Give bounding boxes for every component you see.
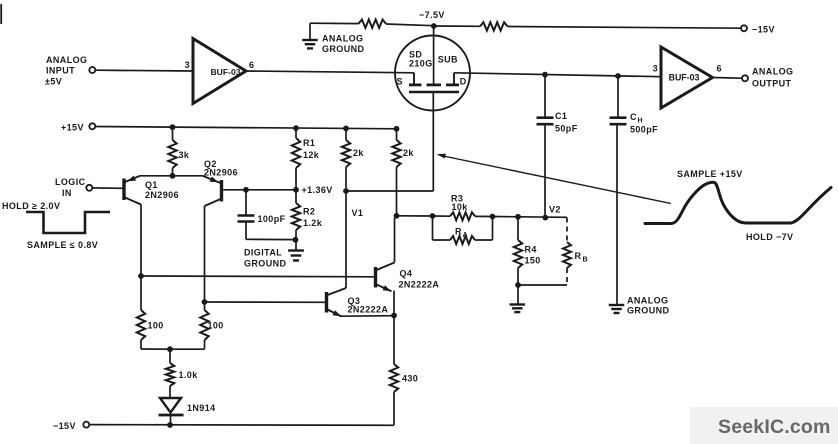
svg-text:210G: 210G <box>409 59 433 69</box>
wire 100pF to R2 bottom <box>246 238 296 240</box>
wire -15V rail <box>89 422 394 428</box>
wire SUB lead <box>433 26 435 84</box>
arrow annotation to gate <box>437 154 672 204</box>
waveform sample-hold <box>645 169 831 242</box>
svg-text:150: 150 <box>525 256 541 266</box>
svg-text:R4: R4 <box>525 245 537 255</box>
wire to Q3 base <box>202 299 325 305</box>
resistor RB <box>518 218 588 286</box>
svg-text:ANALOG: ANALOG <box>46 55 87 65</box>
wire Q2 collector down <box>204 206 206 302</box>
svg-text:500pF: 500pF <box>630 125 658 135</box>
transistor Q4 2N2222A <box>376 263 440 316</box>
op-amp U1 BUF-03 <box>185 39 255 104</box>
svg-text:B: B <box>583 255 589 264</box>
svg-text:C1: C1 <box>555 111 567 121</box>
svg-text:Q1: Q1 <box>145 180 158 190</box>
svg-text:3: 3 <box>185 60 190 70</box>
wire top rail left <box>310 22 359 24</box>
svg-text:Q4: Q4 <box>400 269 413 279</box>
svg-text:2N2906: 2N2906 <box>204 168 238 178</box>
resistor 2k (V1 branch) <box>342 128 365 191</box>
svg-text:2k: 2k <box>403 148 414 158</box>
svg-text:−7.5V: −7.5V <box>419 10 445 20</box>
wire U1 output to FET source <box>246 71 414 73</box>
svg-text:SeekIC.com: SeekIC.com <box>718 416 831 438</box>
svg-text:HOLD −7V: HOLD −7V <box>746 232 793 242</box>
svg-text:R1: R1 <box>303 138 315 148</box>
svg-text:SUB: SUB <box>438 55 458 65</box>
svg-text:100: 100 <box>208 321 224 331</box>
scan mark (edge) <box>0 4 2 24</box>
svg-text:ANALOG: ANALOG <box>752 67 793 77</box>
svg-text:−15V: −15V <box>53 421 76 431</box>
svg-text:1N914: 1N914 <box>187 403 216 413</box>
node V2 <box>549 205 561 215</box>
svg-text:R2: R2 <box>303 207 315 217</box>
resistor 430 <box>390 316 418 426</box>
capacitor CH 500pF <box>610 73 659 304</box>
svg-text:±5V: ±5V <box>45 77 62 87</box>
svg-text:A: A <box>463 230 469 239</box>
svg-text:100: 100 <box>148 321 164 331</box>
wire Q1 collector down <box>140 205 142 277</box>
svg-text:2N2906: 2N2906 <box>145 190 179 200</box>
resistor R2 1.2k <box>292 190 323 243</box>
wire to Q4 base <box>138 273 374 279</box>
svg-text:INPUT: INPUT <box>46 66 75 76</box>
svg-text:ANALOG: ANALOG <box>627 296 668 306</box>
svg-text:S: S <box>397 77 403 87</box>
svg-text:HOLD ≥ 2.0V: HOLD ≥ 2.0V <box>2 201 60 211</box>
wire to -7.5V node <box>386 24 434 26</box>
terminal -15V (top) <box>741 25 775 35</box>
wire to -15V terminal <box>508 27 741 29</box>
wire FET gate to node <box>346 92 433 191</box>
svg-text:V2: V2 <box>549 205 561 215</box>
terminal LOGIC IN <box>55 177 92 198</box>
wire Q4 collector <box>394 218 396 263</box>
svg-text:3k: 3k <box>179 150 190 160</box>
transistor Q3 2N2222A <box>327 288 395 317</box>
svg-text:6: 6 <box>249 60 254 70</box>
terminal ANALOG INPUT ±5V <box>45 55 95 87</box>
wire V1 node <box>343 188 363 288</box>
wire U2 output <box>713 77 742 80</box>
wire input to U1 <box>95 69 193 72</box>
diode D1 1N914 <box>159 398 216 425</box>
wire LOGIC IN to Q1 base <box>92 187 122 189</box>
svg-text:SAMPLE +15V: SAMPLE +15V <box>677 169 743 179</box>
resistor R3 10k <box>430 194 496 221</box>
svg-text:+15V: +15V <box>61 123 84 133</box>
resistor R1 12k <box>292 128 320 189</box>
svg-text:ANALOG: ANALOG <box>322 34 363 44</box>
capacitor 100pF <box>238 190 286 240</box>
svg-text:−15V: −15V <box>752 25 775 35</box>
svg-text:R: R <box>575 251 582 261</box>
svg-text:GROUND: GROUND <box>627 306 669 316</box>
svg-text:2N2222A: 2N2222A <box>348 305 389 315</box>
node -7.5V <box>419 10 445 29</box>
svg-text:2N2222A: 2N2222A <box>399 280 440 290</box>
svg-text:430: 430 <box>402 374 418 384</box>
svg-text:12k: 12k <box>303 150 320 160</box>
wire -7.5V to resistor <box>434 25 480 27</box>
watermark SeekIC.com <box>690 407 838 444</box>
svg-text:6: 6 <box>717 64 722 74</box>
svg-text:SAMPLE ≤ 0.8V: SAMPLE ≤ 0.8V <box>27 240 98 250</box>
resistor 3k <box>168 127 190 176</box>
ground ANALOG GROUND (under CH) <box>609 296 670 316</box>
wire emitter rail <box>140 173 203 179</box>
svg-text:GROUND: GROUND <box>244 259 286 269</box>
svg-text:LOGIC: LOGIC <box>55 177 86 187</box>
svg-text:H: H <box>638 118 643 125</box>
resistor top-left <box>359 20 387 28</box>
svg-text:1.0k: 1.0k <box>179 370 199 380</box>
svg-text:IN: IN <box>62 188 72 198</box>
svg-text:10k: 10k <box>452 202 469 212</box>
resistor 2k (Q4 branch) <box>392 129 414 216</box>
resistor RA <box>433 216 493 244</box>
transistor Q1 2N2906 <box>124 176 179 205</box>
wire Q2 base to +1.36V <box>223 187 299 193</box>
capacitor C1 50pF <box>537 72 578 218</box>
terminal ANALOG OUTPUT <box>742 67 793 89</box>
svg-text:C: C <box>630 112 637 122</box>
svg-text:GROUND: GROUND <box>322 44 364 54</box>
node emitters join <box>391 313 397 319</box>
ground ANALOG GROUND (top left) <box>302 23 364 54</box>
transistor Q5 SD 210G MOSFET <box>395 36 470 111</box>
terminal +15V <box>61 123 95 133</box>
svg-text:+1.36V: +1.36V <box>302 185 333 195</box>
svg-text:OUTPUT: OUTPUT <box>752 79 792 89</box>
svg-text:BUF-03: BUF-03 <box>669 73 700 83</box>
wire +15V rail <box>95 124 399 131</box>
resistor R4 150 <box>514 217 541 288</box>
ground under R4 <box>510 285 526 312</box>
svg-text:D: D <box>460 76 467 86</box>
ground DIGITAL GROUND <box>244 240 304 269</box>
svg-text:3: 3 <box>653 64 658 74</box>
svg-text:2k: 2k <box>353 148 364 158</box>
svg-text:V1: V1 <box>352 208 364 218</box>
wire 2k to R3 row <box>394 213 433 219</box>
svg-text:100pF: 100pF <box>258 214 286 224</box>
resistor 1.0k <box>166 346 198 398</box>
svg-text:BUF-03: BUF-03 <box>210 67 240 77</box>
node +1.36V <box>302 185 333 195</box>
svg-text:R: R <box>455 227 462 237</box>
svg-text:1.2k: 1.2k <box>303 218 323 228</box>
wire R3 to V2 <box>493 214 568 221</box>
svg-text:50pF: 50pF <box>555 124 578 134</box>
wire FET drain to U2 <box>454 73 661 77</box>
op-amp U2 BUF-03 <box>653 47 722 108</box>
logic waveform <box>2 201 110 250</box>
transistor Q2 2N2906 <box>203 159 238 206</box>
resistor top-right <box>480 22 508 30</box>
resistor 100 (right) <box>170 302 224 349</box>
resistor 100 (left) <box>137 276 170 349</box>
svg-text:DIGITAL: DIGITAL <box>244 248 282 258</box>
terminal -15V (bottom) <box>53 421 89 431</box>
